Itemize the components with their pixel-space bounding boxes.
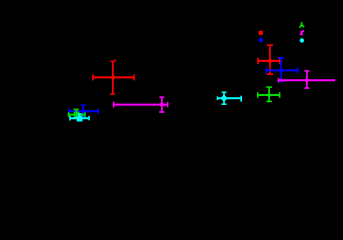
magenta error-bar point 1 (filled-diamond marker) — [113, 97, 168, 112]
red error-bar point 1 (left group) — [93, 60, 135, 94]
isolated red square marker — [259, 31, 263, 35]
magenta error-bar point 2 (right group, star marker) — [279, 71, 336, 88]
red error-bar point 2 (right group) — [258, 45, 280, 74]
cyan error-bar point 2 (filled-diamond marker) — [218, 92, 242, 104]
isolated blue circle marker — [259, 38, 264, 43]
isolated green star glyph — [300, 23, 304, 27]
blue error-bar point 1 (left cluster) — [69, 105, 98, 117]
isolated cyan circle marker — [300, 38, 304, 42]
blue error-bar point 2 (right group) — [266, 58, 297, 82]
green error-bar point 1 (left cluster, open-square marker) — [69, 109, 86, 119]
isolated magenta star glyph — [301, 31, 304, 34]
cyan error-bar point 1 (left cluster, filled-square marker) — [70, 113, 89, 121]
green error-bar point 2 (right group) — [258, 87, 280, 101]
